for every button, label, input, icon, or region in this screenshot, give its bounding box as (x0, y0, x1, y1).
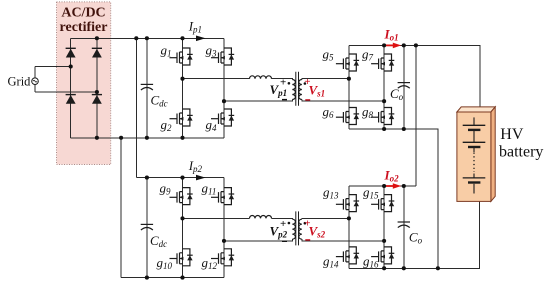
capacitor Cdc1 (141, 84, 153, 90)
wire secondary1 bottom (302, 100, 384, 102)
node sec2 top rail dots (382, 184, 386, 188)
capacitor Co1 (398, 83, 410, 89)
MOSFET g3 (211, 48, 234, 65)
svg-text:AC/DC: AC/DC (61, 6, 105, 21)
svg-text:+: + (280, 77, 286, 89)
wire bus feed x=136 (135, 38, 137, 177)
node bridge1 midpoints (180, 77, 184, 81)
wire grid top (35, 66, 71, 68)
T2 polarity dot primary (288, 222, 291, 225)
wire grid vertical (34, 67, 36, 93)
current arrow Io2 (red) (386, 185, 395, 187)
node bridge2 midpoints (180, 216, 184, 220)
wires: main rails circuit 1 (35, 38, 480, 277)
T2 polarity dot secondary (304, 222, 307, 225)
wire secondary2 top (302, 217, 349, 220)
svg-text:+: + (280, 218, 286, 230)
wire sec2 left leg (348, 186, 350, 268)
diode D1 top-left (66, 48, 76, 57)
transformer T1 secondary winding (299, 80, 302, 100)
transformer T2 core (296, 211, 299, 245)
wire bottom rail 1 (71, 137, 224, 139)
node sec2 bottom rail dots (382, 266, 386, 270)
wire bridge1 left leg (182, 38, 184, 138)
node sec1 midpoints (347, 77, 351, 81)
T1 polarity dot secondary (304, 82, 307, 85)
MOSFET g6 (336, 108, 359, 125)
MOSFET g7 (371, 54, 394, 71)
wire parallel feed x=416 (415, 45, 417, 186)
wire sec1 left leg (348, 45, 350, 129)
node sec2 midpoints (347, 216, 351, 220)
MOSFET g8 (371, 108, 394, 125)
inductor L1 (250, 76, 272, 79)
svg-text:battery: battery (499, 144, 543, 161)
MOSFET g16 (371, 247, 394, 264)
MOSFET g10 (170, 249, 193, 266)
node grid taps (69, 64, 73, 68)
svg-text:Grid: Grid (8, 75, 32, 89)
AC/DC rectifier pink box (57, 2, 111, 165)
wire grid bottom (35, 91, 97, 93)
node bottom rail 2 dots (145, 276, 149, 280)
inductor L2 (250, 216, 272, 219)
wire bottom rail 2 (121, 277, 224, 279)
wire bridge2 right leg (223, 178, 225, 278)
wire sec2 right leg (383, 186, 385, 268)
node top rail 2 dots (145, 176, 149, 180)
node sec1 top rail dots (382, 43, 386, 47)
svg-text:+: + (304, 76, 310, 88)
diode D2 top-right (92, 48, 102, 57)
wire Cdc2 branch (146, 178, 148, 278)
wire bus feed x=121 (120, 138, 122, 278)
svg-text:HV: HV (500, 126, 524, 143)
MOSFET g15 (371, 195, 394, 212)
wire top rail 1 (71, 37, 224, 39)
svg-text:+: + (304, 217, 310, 229)
wire secondary1 top (302, 78, 349, 81)
capacitor Cdc2 (141, 224, 153, 230)
wire sec1 bottom rail (349, 129, 438, 268)
wire diode bridge left leg (70, 38, 72, 138)
MOSFET g14 (336, 247, 359, 264)
wire primary1 top (183, 78, 293, 81)
wire sec1 top rail (349, 45, 480, 107)
node bottom rail 1 dots (95, 136, 99, 140)
diode D3 bottom-left (66, 95, 76, 104)
MOSFET g2 (170, 109, 193, 126)
transformer T1 primary winding (292, 80, 295, 100)
wire sec2 bottom rail (349, 202, 480, 269)
T1 polarity dot primary (288, 82, 291, 85)
wire primary2 bottom (224, 239, 292, 241)
wire sec1 right leg (383, 45, 385, 129)
wire Co1 branch (403, 45, 405, 129)
svg-text:rectifier: rectifier (60, 20, 108, 35)
MOSFET g12 (211, 249, 234, 266)
wire diode bridge right leg (96, 38, 98, 138)
wire primary2 top (183, 217, 293, 220)
MOSFET g9 (170, 188, 193, 205)
wire top rail 2 (136, 177, 224, 179)
wire sec2 top rail (349, 185, 416, 187)
grid AC source (32, 78, 39, 85)
node sec1 bottom rail dots (382, 127, 386, 131)
wire Cdc1 branch (146, 38, 148, 138)
MOSFET g1 (170, 48, 193, 65)
diode D4 bottom-right (92, 95, 102, 104)
wire bridge2 left leg (182, 178, 184, 278)
current arrow Io1 (red) (386, 44, 395, 46)
wire secondary2 bottom (302, 239, 384, 241)
wire bridge1 right leg (223, 38, 225, 138)
wire Co2 branch (403, 186, 405, 268)
transformer T2 primary winding (292, 219, 295, 239)
transformer T2 secondary winding (299, 219, 302, 239)
current arrow Ip2 (196, 175, 206, 181)
HV battery box (457, 107, 495, 201)
MOSFET g4 (211, 109, 234, 126)
wire primary1 bottom (224, 100, 292, 102)
MOSFET g5 (336, 54, 359, 71)
node top rail 1 dots (95, 36, 99, 40)
MOSFET g11 (211, 188, 234, 205)
transformer T1 core (296, 72, 299, 106)
MOSFET g13 (336, 195, 359, 212)
battery cells inside (463, 117, 486, 193)
current arrow Ip1 (196, 36, 206, 42)
capacitor Co2 (398, 222, 410, 228)
